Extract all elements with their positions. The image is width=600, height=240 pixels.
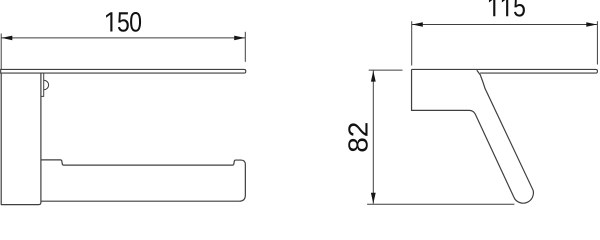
front view: extension line left [0, 34, 2, 70]
side view: extension line right of 115 [596, 21, 598, 64]
front view: wall mounting plate [1, 73, 41, 205]
front view: roll holder bar [41, 160, 245, 201]
front view: shelf top plate [1, 69, 246, 73]
side view: dimension text 82 rotated [342, 122, 373, 153]
front view: dimension arrow right [234, 36, 245, 41]
side view: dimension arrow down [371, 193, 376, 204]
svg-text:82: 82 [342, 122, 373, 153]
side view: dimension arrow right [586, 22, 597, 27]
side view: dimension line 115 [412, 24, 598, 26]
side view: dimension text 115 [489, 0, 525, 17]
side view: dimension line 82 [372, 71, 374, 204]
side view: dimension arrow up [371, 71, 376, 82]
side view: top extension line of 82 [369, 69, 403, 71]
side view: bottom extension line of 82 [367, 203, 514, 205]
front view: dimension text 150 [106, 12, 141, 32]
front view: extension line right [244, 32, 246, 62]
side view: shelf profile [412, 69, 598, 73]
front view: spindle bracket with screw boss [41, 73, 49, 96]
front view: dimension arrow left [2, 36, 13, 41]
front view: dimension line 150 [1, 37, 245, 39]
side view: dimension arrow left [412, 22, 423, 27]
side view: wall bracket and support arm [412, 69, 534, 203]
side view: extension line left of 115 [411, 21, 413, 65]
